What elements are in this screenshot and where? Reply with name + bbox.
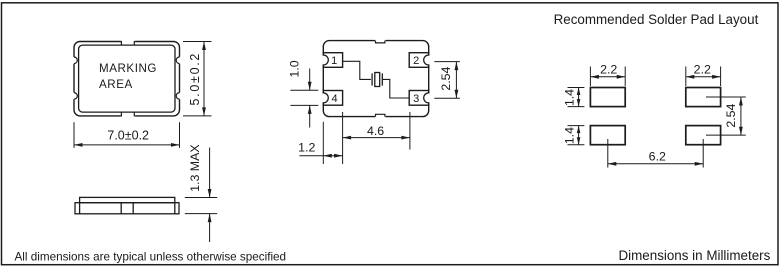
svg-text:4: 4 — [331, 93, 337, 105]
svg-text:5.0±0.2: 5.0±0.2 — [188, 52, 202, 106]
svg-text:4.6: 4.6 — [367, 124, 384, 138]
svg-text:2.2: 2.2 — [600, 62, 617, 76]
svg-text:Dimensions in Millimeters: Dimensions in Millimeters — [619, 248, 771, 263]
svg-text:1: 1 — [331, 55, 337, 67]
svg-text:AREA: AREA — [99, 78, 133, 91]
svg-text:2.54: 2.54 — [439, 66, 453, 90]
svg-text:All dimensions are typical unl: All dimensions are typical unless otherw… — [15, 250, 287, 263]
svg-text:7.0±0.2: 7.0±0.2 — [107, 128, 149, 142]
svg-text:1.0: 1.0 — [288, 60, 302, 77]
svg-text:3: 3 — [413, 93, 419, 105]
svg-text:1.3 MAX: 1.3 MAX — [188, 144, 202, 192]
svg-text:MARKING: MARKING — [99, 62, 157, 75]
svg-text:6.2: 6.2 — [649, 149, 666, 163]
svg-text:2: 2 — [413, 55, 419, 67]
svg-text:1.2: 1.2 — [298, 140, 315, 154]
svg-text:Recommended Solder Pad Layout: Recommended Solder Pad Layout — [554, 12, 759, 27]
svg-text:1.4: 1.4 — [562, 127, 576, 144]
svg-text:1.4: 1.4 — [562, 89, 576, 106]
svg-text:2.2: 2.2 — [694, 62, 711, 76]
svg-text:2.54: 2.54 — [724, 103, 738, 127]
